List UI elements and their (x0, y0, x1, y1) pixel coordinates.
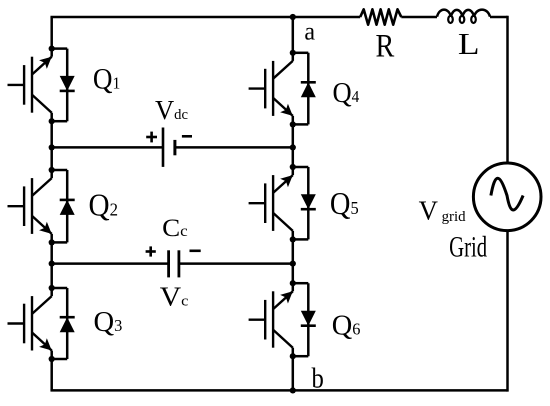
wire: right leg Q4-Q5 (292, 116, 295, 175)
svg-text:L: L (458, 27, 480, 61)
transistor Q1 (IGBT) (8, 57, 52, 113)
wire: Cc row left of capacitor (52, 262, 169, 265)
junction: Q2 bottom node (49, 239, 55, 245)
polarity - of Vdc (182, 135, 192, 138)
sine wave inside grid source (491, 178, 523, 210)
resistor R (360, 9, 401, 24)
wire: between R and L (401, 16, 437, 19)
polarity - of Cc (190, 250, 201, 253)
junction: Q4 bottom node (290, 121, 296, 127)
svg-text:R: R (376, 27, 395, 64)
junction: Vdc row at left leg (49, 144, 55, 150)
junction: Q5 top node (290, 164, 296, 170)
junction: Vdc row at right leg (290, 144, 296, 150)
wire: bottom rail (50, 389, 507, 392)
junction: Cc row at right leg (290, 261, 296, 267)
grid voltage source circle (473, 163, 541, 231)
wire: left leg Q1-Q2 (50, 113, 53, 178)
junction: Q6 bottom node (290, 353, 296, 359)
transistor Q5 (IGBT) (249, 175, 293, 231)
diode of Q2 (antiparallel) (52, 170, 75, 242)
svg-text:grid: grid (442, 209, 467, 225)
junction: Q6 top node (290, 280, 296, 286)
svg-text:V: V (419, 195, 439, 225)
wire: left leg top (to Q1) (50, 17, 53, 57)
junction: Cc row at left leg (49, 261, 55, 267)
transistor Q2 (IGBT) (8, 178, 52, 234)
junction: Q4 top node (290, 50, 296, 56)
wire: right leg Q5-Q6 (292, 231, 295, 291)
polarity + of Cc (146, 250, 156, 253)
wire: Vdc row right of capacitor (175, 146, 293, 149)
diode of Q4 (antiparallel) (293, 53, 316, 125)
wire: grid source down to bottom rail (506, 232, 509, 392)
wire: left leg Q3 to bottom rail (50, 351, 53, 391)
svg-text:Grid: Grid (449, 230, 487, 264)
junction: node a on top rail (290, 14, 296, 20)
wire: left leg Q2-Q3 (50, 234, 53, 296)
wire: Vdc row left of capacitor (52, 146, 163, 149)
diode of Q6 (antiparallel) (293, 283, 316, 356)
wire: top rail left section (50, 16, 360, 19)
wire: Cc row right of capacitor (179, 262, 293, 265)
junction: node b on bottom rail (290, 387, 296, 393)
diode of Q1 (antiparallel) (52, 49, 75, 122)
transistor Q6 (IGBT) (249, 291, 293, 347)
wire: right leg Q6 to node b (292, 348, 295, 391)
wire: right leg node a to Q4 (292, 17, 295, 61)
svg-text:b: b (312, 362, 324, 394)
inductor L (437, 10, 490, 17)
polarity + of Vdc (146, 136, 157, 139)
diode of Q5 (antiparallel) (293, 167, 316, 239)
transistor Q3 (IGBT) (8, 296, 52, 350)
junction: Q5 bottom node (290, 236, 296, 242)
capacitor Cc (167, 250, 170, 277)
junction: Q3 bottom node (49, 356, 55, 362)
diode of Q3 (antiparallel) (52, 288, 75, 359)
junction: Q2 top node (49, 167, 55, 173)
transistor Q4 (IGBT) (249, 61, 293, 116)
junction: Q1 bottom node (49, 118, 55, 124)
svg-text:a: a (304, 18, 315, 45)
junction: Q1 top node (49, 46, 55, 52)
wire: top rail right section (490, 16, 508, 19)
capacitor Vdc (dc source, long + short plate) (162, 128, 165, 167)
junction: Q3 top node (49, 285, 55, 291)
wire: right side down to grid source (506, 16, 509, 163)
